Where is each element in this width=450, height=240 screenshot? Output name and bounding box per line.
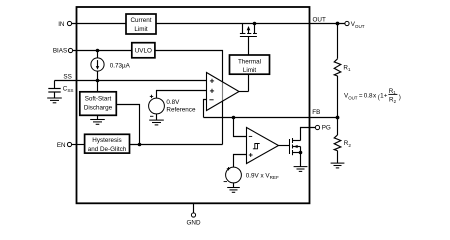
junction on OUT rail at FET — [253, 22, 257, 26]
svg-text:Soft-Start: Soft-Start — [85, 96, 112, 103]
wire R2 to ground — [337, 151, 339, 163]
ground below R2 — [331, 163, 345, 168]
terminal EN — [67, 142, 71, 146]
wire FB to comparator inverting input — [234, 118, 247, 137]
wire comparator output to Q2 gate — [279, 145, 290, 147]
ground below CSS — [47, 98, 62, 103]
svg-text:0.8: 0.8 — [364, 93, 373, 100]
wire current source to SS node and Soft-Start Discharge — [97, 71, 99, 92]
ground below soft-start discharge — [90, 120, 105, 125]
transistor Q1 PMOS pass FET — [240, 24, 257, 37]
svg-text:and De-Glitch: and De-Glitch — [88, 146, 127, 153]
terminal IN — [67, 21, 71, 25]
terminal VOUT — [345, 21, 349, 25]
terminal PG — [315, 125, 319, 129]
svg-text:PG: PG — [322, 124, 331, 131]
UVLO block U4 — [132, 43, 155, 58]
wire soft-start discharge to ground — [97, 115, 99, 119]
svg-text:IN: IN — [58, 21, 65, 28]
main IC boundary box — [77, 7, 310, 203]
wire Q1 gate to Thermal Limit — [248, 37, 250, 56]
wire error amp output — [239, 91, 249, 93]
wire VOUT to R1 — [337, 24, 339, 59]
hysteresis and de-glitch block U6 — [85, 134, 130, 153]
svg-text:+: + — [384, 93, 388, 100]
svg-text:Hysteresis: Hysteresis — [92, 137, 121, 144]
wire SS rail to error amp input — [55, 80, 207, 82]
wire error amp inverting input from FB — [204, 100, 207, 118]
svg-text:UVLO: UVLO — [135, 48, 152, 55]
transistor Q2 NMOS PG open drain — [290, 138, 301, 155]
svg-text:Limit: Limit — [243, 67, 257, 74]
svg-text:=: = — [359, 93, 363, 100]
wire GND pin — [193, 203, 195, 213]
wire V1 to ground — [156, 114, 158, 120]
wire Q2 drain to PG pin — [301, 128, 316, 141]
terminal GND — [191, 213, 195, 217]
terminal BIAS — [68, 48, 72, 52]
wire hysteresis output to enable riser — [130, 144, 223, 146]
ground below V1 — [149, 120, 164, 125]
soft-start discharge block U5 — [80, 92, 117, 116]
svg-text:): ) — [399, 94, 401, 101]
wire UVLO output to enable riser — [155, 51, 223, 145]
junction BIAS / current source tap — [96, 49, 100, 53]
svg-text:FB: FB — [312, 109, 320, 116]
svg-text:Thermal: Thermal — [238, 58, 261, 65]
wire Thermal Limit to error amp output — [248, 74, 250, 91]
voltage source V1 0.8V reference — [149, 95, 165, 117]
voltage source V2 0.9V x VREF — [224, 167, 242, 183]
svg-text:SS: SS — [63, 74, 71, 81]
svg-text:OUT: OUT — [313, 16, 326, 23]
wire EN to hysteresis block — [72, 144, 85, 146]
svg-text:BIAS: BIAS — [53, 48, 67, 55]
comparator U2 power good — [247, 128, 279, 164]
junction Q2 source/body — [299, 151, 303, 155]
current source I1 0.73uA — [91, 51, 104, 72]
resistor R2 — [334, 135, 341, 151]
junction OUT / R1 tap — [336, 22, 340, 26]
junction FB / comparator tap — [232, 116, 236, 120]
wire Q2 source to ground — [300, 153, 302, 167]
resistor Current Limit block — [126, 14, 156, 34]
wire BIAS to UVLO — [73, 50, 132, 52]
wire V2 to comparator non-inverting input — [234, 155, 247, 168]
equation VOUT = 0.8 x (1 + R1/R2) — [344, 88, 401, 104]
wire V1 to error amp input — [157, 91, 207, 99]
svg-text:Reference: Reference — [166, 106, 196, 113]
svg-text:EN: EN — [57, 142, 66, 149]
capacitor CSS — [48, 81, 60, 98]
junction SS node — [96, 79, 100, 83]
svg-text:Discharge: Discharge — [84, 105, 113, 112]
junction FB / divider — [336, 116, 340, 120]
wire soft-start control from hysteresis — [116, 105, 139, 145]
wire FB node to R2 — [337, 118, 339, 136]
svg-text:GND: GND — [187, 220, 201, 227]
svg-text:Limit: Limit — [134, 26, 148, 33]
resistor R1 — [334, 59, 341, 76]
svg-text:0.8V: 0.8V — [166, 99, 180, 106]
op-amp U1 error amplifier — [207, 73, 240, 111]
junction EN / soft-start control — [138, 143, 142, 147]
wire V2 to ground — [233, 183, 235, 188]
wire FB net — [204, 117, 338, 119]
svg-text:Current: Current — [131, 17, 152, 24]
wire IN rail (IN terminal to Current Limit) — [72, 23, 126, 25]
ground below V2 — [227, 188, 240, 193]
wire R1 to FB node — [337, 76, 339, 118]
wire IN rail (Current Limit to FET to OUT terminal) — [156, 23, 345, 25]
ground below Q2 — [294, 167, 308, 172]
svg-text:0.73µA: 0.73µA — [110, 63, 131, 70]
thermal limit block U3 — [230, 55, 270, 74]
